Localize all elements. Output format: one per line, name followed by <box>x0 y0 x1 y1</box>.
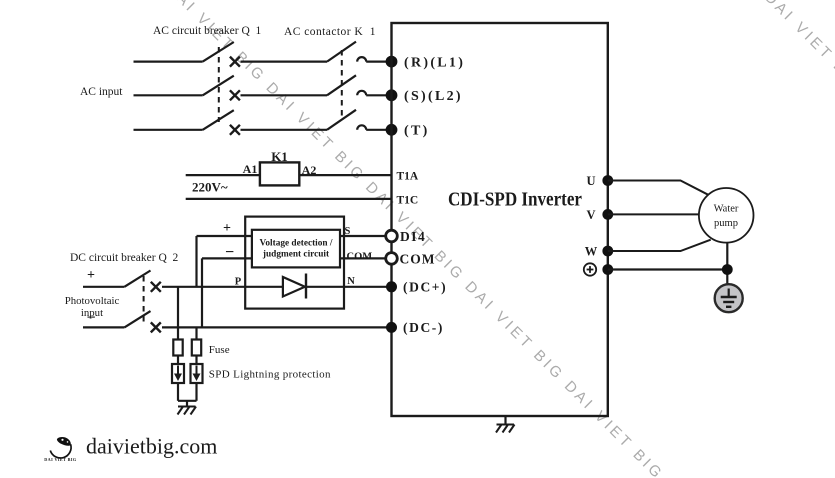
label terminal (S)(L2) <box>404 89 463 104</box>
contactor K1 pole T hook <box>357 125 366 129</box>
label (DC+) <box>403 280 447 295</box>
wire PE to earth junction <box>608 268 728 270</box>
svg-text:Fuse: Fuse <box>209 344 230 356</box>
coil K1 <box>260 162 299 185</box>
PE terminal symbol <box>584 263 596 275</box>
label COM (wire) <box>347 251 373 262</box>
label A1 <box>243 162 258 176</box>
breaker Q1 pole T blade <box>203 110 234 130</box>
svg-text:DC circuit breaker Q 2: DC circuit breaker Q 2 <box>70 252 179 264</box>
wire minus horizontal to detection box <box>202 257 252 259</box>
wire S to DI4 <box>340 235 386 237</box>
wire phase R left <box>134 60 203 62</box>
contactor K1 pole R hook <box>357 57 366 62</box>
svg-text:AC input: AC input <box>80 86 123 98</box>
label terminal T1A <box>397 171 419 183</box>
wire W to pump <box>608 240 711 251</box>
label terminal T1C <box>397 194 419 206</box>
wire fuse1 to SPD1 <box>177 356 179 365</box>
SPD device 2 <box>191 364 203 383</box>
inverter U1 box <box>392 23 608 416</box>
svg-text:daivietbig.com: daivietbig.com <box>86 434 217 459</box>
label Fuse <box>209 344 230 356</box>
svg-text:+: + <box>223 221 231 236</box>
svg-text:COM: COM <box>347 251 373 262</box>
terminal DI4 circle <box>386 230 398 242</box>
label + (detection input) <box>223 221 231 236</box>
label P <box>235 277 242 288</box>
label: AC contactor K1 <box>284 26 376 38</box>
svg-text:N: N <box>347 276 355 287</box>
label + (PV input) <box>87 268 95 283</box>
breaker Q1 pole T X contact <box>230 125 240 135</box>
svg-text:Water: Water <box>714 204 739 215</box>
label COM terminal <box>400 252 436 267</box>
wire plus tap vertical <box>195 236 197 287</box>
wire pump to earth <box>726 243 728 286</box>
breaker Q2 pole + blade <box>124 271 150 287</box>
label terminal (R)(L1) <box>404 55 465 70</box>
svg-text:K1: K1 <box>271 149 288 164</box>
terminal S dot <box>386 89 398 101</box>
label 220V~ <box>192 180 228 195</box>
voltage detection / judgment circuit box <box>252 230 340 268</box>
svg-text:W: W <box>585 245 598 259</box>
wire PV- left <box>83 326 124 328</box>
wire PV- to DC- terminal <box>162 326 392 328</box>
wire U to pump <box>608 181 709 196</box>
svg-text:pump: pump <box>714 218 738 229</box>
terminal T dot <box>386 124 398 136</box>
wire V to pump <box>608 213 699 215</box>
label: Photovoltaic input <box>65 295 120 319</box>
terminal V dot <box>602 209 613 220</box>
label terminal (T) <box>404 124 430 139</box>
wire fuse2 tap vertical <box>195 327 197 340</box>
breaker Q1 pole S X contact <box>230 90 240 100</box>
terminal R dot <box>386 56 398 68</box>
terminal U dot <box>602 175 613 186</box>
wire phase T left <box>134 129 203 131</box>
label - (PV input) <box>86 310 95 327</box>
junction dot pump/PE <box>722 264 733 275</box>
svg-text:AC contactor K 1: AC contactor K 1 <box>284 26 376 38</box>
wire phase S middle <box>241 94 328 96</box>
wire phase T middle <box>241 129 328 131</box>
terminal DC+ dot <box>386 281 397 292</box>
label DI4 <box>400 229 426 244</box>
detection outer box <box>245 217 344 309</box>
wire SPD2 down <box>195 383 197 401</box>
svg-text:SPD Lightning protection: SPD Lightning protection <box>209 369 331 381</box>
svg-text:(R)(L1): (R)(L1) <box>404 55 465 70</box>
label U <box>586 174 595 188</box>
terminal COM circle <box>386 253 398 265</box>
ground (inverter) <box>496 416 515 433</box>
svg-text:DAI VIET BIG: DAI VIET BIG <box>44 457 77 462</box>
wire SPD1 down <box>177 383 179 401</box>
breaker Q1 pole S blade <box>203 76 234 96</box>
breaker Q2 pole - blade <box>124 311 150 327</box>
label SPD Lightning protection <box>209 369 331 381</box>
svg-text:A1: A1 <box>243 162 258 176</box>
label daivietbig.com <box>86 434 217 459</box>
svg-text:T1A: T1A <box>397 171 419 183</box>
wire plus horizontal to detection box <box>197 235 252 237</box>
svg-text:Voltage detection /: Voltage detection / <box>260 239 333 249</box>
svg-text:judgment circuit: judgment circuit <box>262 250 330 260</box>
svg-text:Photovoltaic: Photovoltaic <box>65 295 120 307</box>
breaker Q2 pole + X contact <box>151 282 161 292</box>
label V <box>586 208 595 222</box>
ground (SPD) <box>178 401 197 415</box>
wire phase S left <box>134 94 203 96</box>
fuse F2 <box>192 340 201 356</box>
svg-text:+: + <box>87 268 95 283</box>
contactor K1 linkage dashed <box>341 50 343 118</box>
svg-text:COM: COM <box>400 252 436 267</box>
water pump M1 <box>699 188 754 243</box>
SPD device 1 <box>172 364 184 383</box>
label K1 <box>271 149 288 164</box>
wire PV+ left <box>83 286 124 288</box>
svg-text:V: V <box>586 208 595 222</box>
wire fuse1 tap vertical <box>177 287 179 340</box>
wire T1C <box>186 198 392 200</box>
watermark diagonal line 2 <box>761 0 835 194</box>
wire fuse2 to SPD2 <box>195 356 197 365</box>
label: AC circuit breaker Q1 <box>153 25 262 37</box>
svg-text:CDI-SPD Inverter: CDI-SPD Inverter <box>448 190 582 211</box>
protective earth symbol <box>715 284 743 312</box>
svg-text:220V~: 220V~ <box>192 180 228 195</box>
svg-text:(T): (T) <box>404 124 430 139</box>
breaker Q2 pole - X contact <box>151 322 161 332</box>
wire phase T right <box>366 129 391 131</box>
label N <box>347 276 355 287</box>
contactor K1 pole R blade <box>327 42 356 62</box>
terminal PE dot <box>602 264 613 275</box>
breaker Q1 linkage dashed <box>218 47 220 122</box>
svg-text:T1C: T1C <box>397 194 419 206</box>
contactor K1 pole S hook <box>357 91 366 96</box>
wire T1A <box>186 174 392 176</box>
wire SPD bottom bar <box>178 400 197 402</box>
contactor K1 pole S blade <box>327 75 356 95</box>
label A2 <box>302 163 317 177</box>
label - (detection input) <box>225 244 234 261</box>
svg-text:−: − <box>86 310 95 327</box>
breaker Q1 pole R blade <box>203 42 234 62</box>
svg-text:(DC-): (DC-) <box>403 320 444 335</box>
terminal W dot <box>602 246 613 257</box>
svg-text:A2: A2 <box>302 163 317 177</box>
wire phase R right <box>366 60 391 62</box>
diode D1 <box>283 274 306 299</box>
svg-text:−: − <box>225 244 234 261</box>
svg-text:U: U <box>586 174 595 188</box>
label S <box>345 226 351 237</box>
label: DC circuit breaker Q2 <box>70 252 179 264</box>
svg-text:AC circuit breaker Q 1: AC circuit breaker Q 1 <box>153 25 262 37</box>
wire phase R middle <box>241 60 328 62</box>
breaker Q1 pole R X contact <box>230 57 240 67</box>
contactor K1 pole T blade <box>327 110 356 130</box>
svg-text:(S)(L2): (S)(L2) <box>404 89 463 104</box>
svg-text:DI4: DI4 <box>400 229 426 244</box>
label CDI-SPD Inverter <box>448 190 582 211</box>
label: AC input <box>80 86 123 98</box>
breaker Q2 linkage dashed <box>143 276 145 322</box>
label W <box>585 245 598 259</box>
wire COM to terminal <box>340 257 386 259</box>
svg-text:P: P <box>235 277 242 288</box>
wire phase S right <box>366 94 391 96</box>
label (DC-) <box>403 320 444 335</box>
wire PV+ to diode <box>162 286 283 288</box>
fuse F1 <box>173 340 182 356</box>
terminal DC- dot <box>386 322 397 333</box>
wire minus tap vertical <box>201 258 203 327</box>
logo bird <box>44 437 77 462</box>
svg-text:(DC+): (DC+) <box>403 280 447 295</box>
wire diode to DC+ <box>306 286 392 288</box>
watermark diagonal line 1 <box>163 0 766 478</box>
